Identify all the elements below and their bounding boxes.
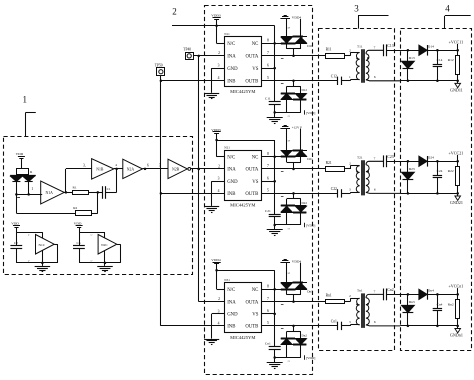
svg-text:Cn1: Cn1 bbox=[265, 342, 271, 346]
svg-text:7: 7 bbox=[374, 45, 376, 49]
svg-text:1: 1 bbox=[22, 95, 27, 105]
svg-text:4: 4 bbox=[218, 321, 220, 325]
svg-text:OUTB: OUTB bbox=[245, 80, 258, 85]
svg-text:GND: GND bbox=[227, 180, 238, 185]
svg-text:D22: D22 bbox=[302, 201, 308, 205]
svg-text:[VDD]: [VDD] bbox=[306, 111, 315, 115]
svg-text:2: 2 bbox=[218, 51, 220, 55]
svg-text:3: 3 bbox=[349, 188, 351, 192]
svg-text:4: 4 bbox=[218, 189, 220, 193]
svg-text:D14: D14 bbox=[428, 44, 434, 48]
svg-text:2: 2 bbox=[218, 164, 220, 168]
svg-text:C1: C1 bbox=[107, 187, 111, 191]
svg-text:INA: INA bbox=[227, 55, 236, 60]
svg-text:4: 4 bbox=[115, 163, 117, 167]
svg-text:1: 1 bbox=[31, 187, 33, 191]
svg-text:Cn4: Cn4 bbox=[437, 302, 443, 306]
svg-text:T11: T11 bbox=[357, 45, 363, 49]
svg-text:GND11: GND11 bbox=[450, 88, 463, 93]
svg-text:[VDD]: [VDD] bbox=[306, 223, 315, 227]
svg-text:C21: C21 bbox=[265, 209, 271, 213]
svg-text:R11: R11 bbox=[326, 48, 332, 52]
svg-text:VDD4: VDD4 bbox=[292, 16, 302, 20]
svg-text:C2: C2 bbox=[14, 241, 18, 245]
svg-text:VS: VS bbox=[252, 67, 258, 72]
svg-text:N2C: N2C bbox=[101, 243, 108, 247]
svg-text:OUTA: OUTA bbox=[245, 168, 258, 173]
svg-text:OUTA: OUTA bbox=[245, 300, 258, 305]
svg-text:N/C: N/C bbox=[227, 42, 235, 47]
svg-text:N2A: N2A bbox=[127, 167, 135, 171]
svg-text:3: 3 bbox=[218, 177, 220, 181]
svg-text:N31: N31 bbox=[224, 278, 230, 282]
svg-text:VS: VS bbox=[252, 180, 258, 185]
svg-text:NC: NC bbox=[252, 42, 259, 47]
svg-text:D12: D12 bbox=[302, 88, 308, 92]
svg-text:3: 3 bbox=[218, 309, 220, 313]
svg-text:1: 1 bbox=[349, 75, 351, 79]
svg-text:N1A: N1A bbox=[46, 191, 54, 195]
svg-text:N/C: N/C bbox=[227, 156, 235, 161]
svg-text:R22: R22 bbox=[448, 169, 454, 173]
svg-text:NC: NC bbox=[252, 156, 259, 161]
svg-text:N1B: N1B bbox=[96, 167, 104, 171]
svg-text:7: 7 bbox=[267, 51, 269, 55]
svg-text:4: 4 bbox=[445, 4, 450, 14]
svg-text:VDD4: VDD4 bbox=[292, 259, 302, 263]
svg-text:5: 5 bbox=[267, 76, 269, 80]
svg-text:+VCCn1: +VCCn1 bbox=[448, 283, 463, 288]
svg-text:Cn1: Cn1 bbox=[331, 320, 337, 324]
svg-text:6: 6 bbox=[374, 75, 376, 79]
svg-text:N11: N11 bbox=[224, 32, 230, 36]
svg-text:D24: D24 bbox=[428, 155, 434, 159]
svg-text:2: 2 bbox=[349, 48, 351, 52]
svg-text:MIC4425YM: MIC4425YM bbox=[230, 335, 255, 340]
svg-text:2: 2 bbox=[349, 294, 351, 298]
svg-text:INB: INB bbox=[227, 192, 235, 197]
svg-text:+VCC11: +VCC11 bbox=[449, 39, 464, 44]
svg-text:R2: R2 bbox=[73, 206, 77, 210]
svg-text:3: 3 bbox=[159, 163, 161, 167]
svg-text:N2B: N2B bbox=[172, 167, 180, 171]
svg-text:VDD4: VDD4 bbox=[211, 258, 221, 262]
svg-text:INA: INA bbox=[227, 300, 236, 305]
svg-text:Rn2: Rn2 bbox=[448, 302, 454, 306]
svg-text:C22: C22 bbox=[331, 187, 337, 191]
svg-text:MIC4425YM: MIC4425YM bbox=[230, 203, 255, 208]
svg-text:OUTB: OUTB bbox=[245, 325, 258, 330]
svg-text:R21: R21 bbox=[326, 161, 332, 165]
svg-text:C23: C23 bbox=[387, 155, 393, 159]
svg-text:GNDn1: GNDn1 bbox=[450, 333, 463, 338]
svg-text:+VCC21: +VCC21 bbox=[448, 150, 463, 155]
svg-text:2: 2 bbox=[218, 297, 220, 301]
svg-text:TP40: TP40 bbox=[183, 48, 191, 52]
svg-text:R12: R12 bbox=[448, 58, 454, 62]
svg-text:C14: C14 bbox=[437, 58, 443, 62]
svg-text:6: 6 bbox=[267, 176, 269, 180]
svg-text:C13: C13 bbox=[387, 44, 393, 48]
svg-text:3: 3 bbox=[354, 4, 359, 14]
svg-text:C24: C24 bbox=[437, 169, 443, 173]
svg-text:VDD: VDD bbox=[11, 222, 19, 226]
svg-text:7: 7 bbox=[374, 156, 376, 160]
svg-text:7: 7 bbox=[267, 297, 269, 301]
svg-text:INA: INA bbox=[227, 168, 236, 173]
svg-text:Tn1: Tn1 bbox=[357, 289, 363, 293]
svg-text:GND21: GND21 bbox=[450, 200, 463, 205]
svg-text:INB: INB bbox=[227, 325, 235, 330]
svg-text:Cn2: Cn2 bbox=[387, 288, 393, 292]
svg-text:6: 6 bbox=[267, 63, 269, 67]
svg-text:4: 4 bbox=[218, 76, 220, 80]
svg-text:Dn4: Dn4 bbox=[428, 289, 434, 293]
svg-text:2: 2 bbox=[349, 162, 351, 166]
svg-text:3: 3 bbox=[349, 320, 351, 324]
svg-text:6: 6 bbox=[147, 163, 149, 167]
svg-text:7: 7 bbox=[267, 164, 269, 168]
svg-text:INB: INB bbox=[227, 80, 235, 85]
svg-text:N/C: N/C bbox=[227, 288, 235, 293]
svg-text:VDD: VDD bbox=[74, 222, 82, 226]
svg-text:C11: C11 bbox=[265, 96, 271, 100]
svg-text:Dn1: Dn1 bbox=[307, 290, 313, 294]
svg-text:D21: D21 bbox=[307, 157, 313, 161]
svg-text:8: 8 bbox=[267, 284, 269, 288]
svg-text:Dn2: Dn2 bbox=[302, 333, 308, 337]
svg-text:u-: u- bbox=[91, 261, 93, 263]
svg-text:R1: R1 bbox=[73, 186, 77, 190]
svg-text:8: 8 bbox=[267, 39, 269, 43]
svg-text:Rn1: Rn1 bbox=[326, 293, 332, 297]
svg-text:3: 3 bbox=[218, 64, 220, 68]
svg-text:N21: N21 bbox=[224, 146, 230, 150]
svg-text:OUTB: OUTB bbox=[245, 192, 258, 197]
svg-text:6: 6 bbox=[267, 309, 269, 313]
svg-text:GND: GND bbox=[227, 313, 238, 318]
svg-text:D23: D23 bbox=[409, 167, 415, 171]
svg-text:C3: C3 bbox=[77, 241, 81, 245]
svg-text:8: 8 bbox=[267, 152, 269, 156]
svg-text:5: 5 bbox=[267, 189, 269, 193]
svg-text:5: 5 bbox=[267, 321, 269, 325]
svg-text:C12: C12 bbox=[331, 75, 337, 79]
svg-text:OUTA: OUTA bbox=[245, 55, 258, 60]
svg-text:T21: T21 bbox=[357, 156, 363, 160]
svg-text:7: 7 bbox=[374, 290, 376, 294]
svg-text:6: 6 bbox=[374, 320, 376, 324]
svg-text:[VDD]: [VDD] bbox=[306, 356, 315, 360]
svg-text:N1C: N1C bbox=[38, 243, 45, 247]
svg-text:VDD3: VDD3 bbox=[211, 14, 221, 18]
svg-text:D13: D13 bbox=[409, 56, 415, 60]
svg-text:Dn3: Dn3 bbox=[409, 300, 415, 304]
svg-text:u-: u- bbox=[28, 261, 30, 263]
svg-text:NC: NC bbox=[252, 288, 259, 293]
svg-text:D11: D11 bbox=[307, 44, 313, 48]
svg-text:VDD: VDD bbox=[16, 152, 24, 156]
svg-text:2: 2 bbox=[172, 7, 177, 17]
svg-text:TP50: TP50 bbox=[155, 63, 163, 67]
svg-text:VS: VS bbox=[252, 313, 258, 318]
svg-text:MIC4425YM: MIC4425YM bbox=[230, 89, 255, 94]
svg-text:6: 6 bbox=[374, 188, 376, 192]
svg-text:GND: GND bbox=[227, 67, 238, 72]
